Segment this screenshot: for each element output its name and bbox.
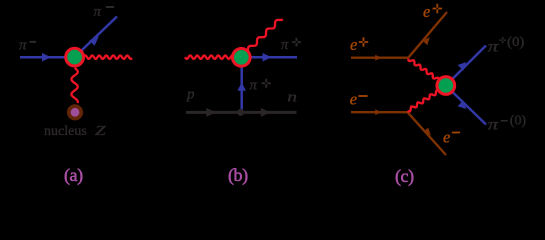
- arrow on neutron side (b): [261, 108, 271, 117]
- arrow on incoming electron line (c): [375, 109, 382, 115]
- svg-text:π: π: [488, 39, 500, 56]
- svg-text:p: p: [186, 87, 195, 103]
- wire: outgoing pion-plus line (c): [446, 46, 486, 86]
- wire: outgoing electron line (c): [408, 112, 447, 155]
- wire: exchanged pion line (b): [240, 57, 243, 112]
- wire: incoming pion line (a): [20, 56, 75, 59]
- wire: upper photon wavy line (c): [408, 59, 442, 83]
- arrow on outgoing pion line (a): [89, 36, 99, 45]
- arrow on pion-minus line (c): [458, 100, 467, 109]
- svg-text:Z: Z: [95, 124, 106, 139]
- svg-text:(b): (b): [228, 165, 248, 186]
- svg-text:(0): (0): [510, 113, 526, 128]
- arrow on outgoing electron line (c): [423, 128, 431, 136]
- vertex blob (c): [435, 75, 456, 96]
- svg-text:e: e: [350, 35, 357, 54]
- wire: incoming photon wavy line (b): [185, 56, 234, 59]
- svg-text:nucleus: nucleus: [44, 124, 87, 139]
- vertex blob (b): [231, 47, 252, 68]
- svg-text:π: π: [488, 117, 500, 134]
- svg-text:n: n: [287, 90, 297, 106]
- wire: outgoing photon wavy line (b): [244, 19, 283, 54]
- wire: virtual photon wavy line to nucleus (a): [71, 68, 77, 103]
- vertex blob (a): [64, 47, 85, 68]
- vertex dot on nucleon line (b): [237, 109, 244, 116]
- wire: nucleon line p to n (b): [186, 111, 297, 114]
- nucleus blob (a): [67, 104, 83, 120]
- svg-text:π: π: [250, 78, 258, 94]
- svg-text:(0): (0): [507, 34, 524, 49]
- arrow on outgoing positron line (c): [422, 37, 429, 45]
- svg-text:π: π: [281, 37, 289, 53]
- wire: outgoing pion line (b): [241, 56, 297, 59]
- wire: incoming electron line (c): [351, 111, 408, 113]
- svg-text:(c): (c): [395, 166, 414, 187]
- wire: outgoing pion line (a): [75, 17, 118, 58]
- wire: lower photon wavy line (c): [408, 89, 443, 111]
- arrow on exchanged pion line (b): [237, 82, 246, 91]
- svg-text:(a): (a): [64, 165, 83, 186]
- wire: outgoing photon wavy line (a): [80, 56, 132, 59]
- arrow on incoming pion line (a): [42, 53, 51, 62]
- arrow on pion-plus line (c): [458, 62, 467, 71]
- svg-text:e: e: [443, 128, 450, 147]
- wire: incoming positron line (c): [351, 57, 408, 59]
- svg-text:π: π: [19, 38, 27, 54]
- wire: outgoing positron line (c): [408, 12, 447, 58]
- arrow on outgoing pion line (b): [263, 53, 272, 62]
- arrow on proton side (b): [206, 108, 216, 117]
- svg-text:e: e: [350, 90, 357, 109]
- arrow on incoming positron line (c): [375, 55, 382, 61]
- svg-text:π: π: [94, 4, 102, 20]
- svg-text:e: e: [423, 2, 430, 21]
- wire: outgoing pion-minus line (c): [446, 86, 486, 125]
